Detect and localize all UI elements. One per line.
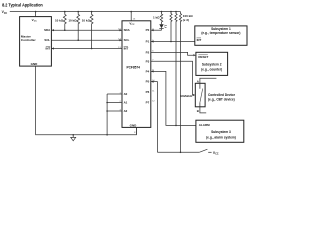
junction rail-to-R7 (LED branch) bbox=[161, 11, 163, 13]
junction ground-symbol tap bbox=[72, 134, 74, 136]
node B (CBT bottom terminal) bbox=[197, 107, 206, 113]
svg-text:SCL: SCL bbox=[124, 38, 130, 42]
svg-text:A2: A2 bbox=[124, 109, 128, 113]
svg-text:INT: INT bbox=[46, 47, 51, 51]
resistor R5 100 kOhm (ALARM pull-up) bbox=[175, 12, 177, 126]
svg-text:CC: CC bbox=[34, 21, 38, 23]
svg-text:PCF8574: PCF8574 bbox=[126, 66, 140, 70]
wire bottom switch line bbox=[157, 152, 199, 154]
junction rail-to-R5 bbox=[175, 11, 177, 13]
master controller U1 box bbox=[20, 17, 52, 67]
wire P2 / RESET to Subsystem 2 bbox=[151, 52, 196, 56]
wire A0 stub bbox=[107, 93, 122, 95]
wire SCL net (master to PCF8574) bbox=[51, 39, 122, 41]
junction rail-to-master VCC bbox=[35, 11, 37, 13]
wire PCF8574 VCC pin bbox=[130, 12, 132, 21]
svg-text:A1: A1 bbox=[124, 101, 128, 105]
junction rail-to-R4 bbox=[170, 11, 172, 13]
svg-text:Controller: Controller bbox=[21, 38, 37, 42]
wire P0 to LED bbox=[151, 29, 162, 31]
ground symbol bbox=[71, 135, 76, 141]
wire master VCC pin bbox=[35, 12, 37, 17]
svg-text:GND: GND bbox=[31, 62, 39, 66]
svg-text:GND: GND bbox=[130, 124, 138, 128]
resistor R7 1 kOhm (LED series) bbox=[160, 12, 162, 22]
svg-text:P2: P2 bbox=[146, 50, 150, 54]
svg-text:B: B bbox=[197, 109, 199, 113]
svg-text:CC: CC bbox=[215, 154, 219, 156]
svg-text:P5: P5 bbox=[146, 80, 150, 84]
svg-text:Subsystem 2: Subsystem 2 bbox=[202, 63, 222, 67]
svg-text:ENABLE: ENABLE bbox=[180, 94, 192, 98]
svg-text:Subsystem 3: Subsystem 3 bbox=[211, 130, 231, 134]
svg-text:CC: CC bbox=[132, 24, 136, 26]
svg-text:(e.g., alarm system): (e.g., alarm system) bbox=[206, 136, 236, 140]
value label 100 kOhm (x 3) bbox=[183, 14, 194, 22]
svg-text:P3: P3 bbox=[146, 59, 150, 63]
Subsystem 1 box bbox=[195, 26, 247, 45]
CBT analog switch U3 box bbox=[195, 83, 205, 107]
svg-text:RESET: RESET bbox=[198, 55, 208, 59]
junction rail-to-PCF8574 VCC bbox=[130, 11, 132, 13]
label Controlled Device bbox=[208, 93, 235, 102]
wire A-pins vertical to ground bus bbox=[106, 94, 108, 135]
svg-text:P4: P4 bbox=[146, 69, 150, 73]
resistor R3 10 kOhm (INT pull-up) bbox=[90, 12, 93, 49]
junction rail-to-R3 bbox=[91, 11, 93, 13]
wire P4 / ALARM net from Subsystem 3 bbox=[151, 70, 196, 126]
label Subsystem 2 bbox=[201, 63, 222, 72]
svg-text:A0: A0 bbox=[124, 92, 128, 96]
svg-text:10 kΩ: 10 kΩ bbox=[68, 19, 77, 23]
junction rail-to-R2 bbox=[77, 11, 79, 13]
svg-text:P1: P1 bbox=[146, 40, 150, 44]
svg-text:SDA: SDA bbox=[44, 28, 51, 32]
svg-text:(e.g., counter): (e.g., counter) bbox=[201, 67, 222, 71]
junction A1 bbox=[106, 102, 108, 104]
svg-text:P0: P0 bbox=[146, 28, 150, 32]
svg-text:(e.g., CBT device): (e.g., CBT device) bbox=[208, 98, 235, 102]
label Subsystem 3 bbox=[206, 130, 236, 140]
svg-text:INT: INT bbox=[197, 38, 202, 42]
wire P1 / INT net to Subsystem 1 bbox=[151, 40, 195, 42]
wire INT net (PCF8574 to master) bbox=[51, 47, 122, 49]
resistor R2 10 kOhm (SCL pull-up) bbox=[77, 12, 80, 41]
svg-text:INT: INT bbox=[124, 47, 129, 51]
resistor R6 100 kOhm (switch pull-up) bbox=[179, 12, 181, 153]
pin label RESET (Subsystem 2, overline) bbox=[198, 55, 208, 59]
wire P5 to bottom switch bbox=[151, 81, 158, 153]
svg-text:ALARM: ALARM bbox=[199, 123, 210, 127]
pin label VCC (master) bbox=[32, 18, 38, 23]
junction A2 bbox=[106, 110, 108, 112]
pin label INT (PCF8574, overline) bbox=[124, 47, 129, 51]
svg-text:SCL: SCL bbox=[44, 38, 50, 42]
wire VCC top rail bbox=[10, 11, 181, 13]
IC U2 PCF8574 I/O expander box bbox=[122, 21, 151, 128]
node VCC (bottom right supply label) bbox=[213, 151, 219, 156]
pin label INT (master, with overline) bbox=[46, 47, 51, 51]
svg-text:8.2 Typical Application: 8.2 Typical Application bbox=[2, 3, 43, 9]
resistor R4 100 kOhm (P1 pull-up) bbox=[170, 12, 172, 42]
pin label INT (Subsystem 1, overline) bbox=[197, 38, 202, 42]
svg-text:10 kΩ: 10 kΩ bbox=[82, 19, 91, 23]
svg-text:SDA: SDA bbox=[124, 28, 131, 32]
svg-text:(e.g., temperature sensor): (e.g., temperature sensor) bbox=[201, 31, 240, 35]
svg-text:P7: P7 bbox=[146, 100, 150, 104]
svg-text:Controlled Device: Controlled Device bbox=[208, 93, 235, 97]
switch element inside CBT box bbox=[200, 83, 203, 107]
Subsystem 3 box bbox=[196, 120, 244, 142]
node VCC (top-left supply label) bbox=[2, 10, 8, 15]
svg-text:P6: P6 bbox=[146, 90, 150, 94]
wire A2 stub bbox=[107, 110, 122, 112]
junction rail-to-R1 bbox=[64, 11, 66, 13]
wire A1 stub bbox=[107, 102, 122, 104]
Subsystem 2 box bbox=[196, 52, 228, 75]
switch S1 (momentary, to VCC) bbox=[199, 149, 211, 152]
svg-text:(x 3): (x 3) bbox=[183, 18, 189, 22]
junction A-pins line to ground bus bbox=[106, 134, 108, 136]
svg-text:1 kΩ: 1 kΩ bbox=[153, 15, 160, 19]
resistor R1 10 kOhm (SDA pull-up) bbox=[63, 12, 66, 31]
svg-text:CC: CC bbox=[4, 13, 8, 15]
wire PCF8574 GND pin to bus bbox=[135, 127, 137, 134]
LED D1 bbox=[159, 22, 167, 31]
wire master GND to ground bus bbox=[36, 66, 137, 135]
svg-text:10 kΩ: 10 kΩ bbox=[55, 19, 64, 23]
wire P3 / ENABLE to CBT switch bbox=[151, 61, 196, 96]
pin label VCC (PCF8574) bbox=[129, 21, 135, 26]
node A (CBT top terminal) bbox=[197, 78, 217, 83]
wire SDA net (master to PCF8574) bbox=[51, 29, 122, 31]
label Master Controller bbox=[21, 34, 37, 42]
label Subsystem 1 bbox=[201, 27, 240, 35]
